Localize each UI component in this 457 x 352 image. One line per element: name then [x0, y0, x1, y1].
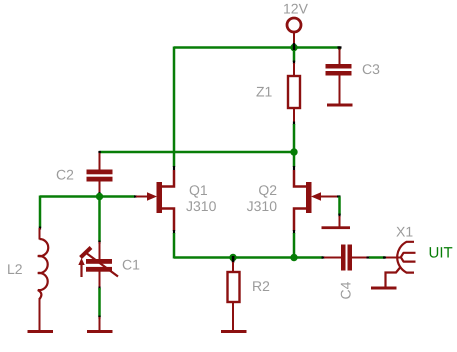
wire top rail VCC: [174, 46, 340, 49]
pin 12V terminal: [293, 33, 295, 44]
pin ground Q2 gate: [339, 216, 341, 228]
svg-text:L2: L2: [7, 261, 23, 277]
transistor Q2 channel bar: [306, 182, 312, 213]
wire overlap black L2 top: [39, 227, 41, 230]
node junction 12V rail: [290, 44, 297, 51]
capacitor C2 plate bottom: [87, 177, 113, 182]
wire overlap black C1 top: [98, 241, 100, 244]
wire overlap black Q2 source: [293, 230, 295, 234]
node junction R2: [229, 254, 236, 261]
ground C1: [87, 330, 113, 333]
svg-text:R2: R2: [252, 278, 270, 294]
wire mid rail y152: [100, 151, 295, 154]
pin C1 bottom: [99, 272, 101, 289]
pin C3 bottom: [339, 76, 341, 105]
wire C1 to ground: [98, 288, 101, 317]
pin L2 top: [39, 228, 41, 240]
pin Z1 top: [293, 63, 295, 76]
wire overlap black Q1 source: [173, 230, 175, 234]
svg-text:J310: J310: [247, 198, 278, 214]
wire Z1 bottom net: [293, 124, 296, 152]
trimmer small arrow C1: [80, 263, 82, 277]
transistor Q2 gate pin: [318, 196, 337, 198]
wire Q2 gate to ground: [338, 197, 341, 216]
pin Z1 bottom: [293, 108, 295, 123]
pin R2 bottom: [232, 302, 234, 331]
svg-text:Q2: Q2: [258, 182, 277, 198]
svg-text:C4: C4: [338, 281, 354, 299]
pin X1 center: [386, 257, 401, 259]
wire Q2 source net: [293, 233, 296, 258]
svg-text:X1: X1: [396, 224, 413, 240]
wire gate net y196.5: [40, 195, 135, 198]
transistor Q2 gate arrowhead: [311, 192, 321, 201]
wire overlap black Q2 gate gnd: [338, 214, 340, 217]
wire C2 drop corner black: [98, 151, 100, 153]
supply terminal 12V circle: [287, 18, 301, 32]
capacitor C4 plate right: [348, 245, 353, 271]
pin C4 left: [324, 257, 342, 259]
trimmer slot bar C1: [81, 248, 92, 258]
transistor Q2 source lead: [294, 209, 307, 232]
inductor L2 coil: [38, 239, 48, 299]
wire overlap black C1 bottom: [98, 287, 100, 290]
wire overlap black C3 top corner: [338, 46, 342, 48]
wire Q1 source net: [173, 233, 176, 259]
wire C1 drop: [98, 197, 101, 243]
capacitor C1 plate bottom: [86, 267, 112, 272]
pin C1 top: [99, 242, 101, 259]
wire overlap black gate net to Q1: [134, 195, 137, 197]
pin C4 right: [352, 257, 368, 259]
node junction mid rail Q2 drain: [290, 148, 297, 155]
capacitor C2 plate top: [87, 170, 113, 175]
pin C3 top: [339, 48, 341, 65]
wire Q2 drain net: [293, 152, 296, 167]
pin ground C1: [99, 317, 101, 331]
svg-text:12V: 12V: [283, 1, 309, 17]
pin C2 top: [99, 153, 101, 170]
ground R2: [221, 330, 247, 333]
ground L2: [28, 330, 54, 333]
resistor R2: [228, 272, 240, 302]
wire overlap black C4 left: [322, 256, 325, 258]
wire overlap black Q2 drain: [293, 166, 295, 170]
svg-text:UIT: UIT: [429, 245, 453, 262]
wire overlap black C1 gnd: [98, 316, 100, 319]
wire overlap black R2 top: [232, 256, 235, 263]
wire C3 drop: [338, 47, 341, 51]
capacitor C3 plate top: [326, 64, 352, 69]
wire overlap black Q2 gate corner: [337, 195, 341, 197]
wire L2 drop: [39, 196, 42, 229]
resistor Z1: [288, 76, 300, 108]
trimmer small arrow head C1: [78, 258, 84, 265]
wire overlap black Z1 top: [293, 61, 295, 65]
node junction C2 C1 gate: [96, 193, 103, 200]
node junction Q2 source C4: [290, 254, 297, 261]
connector X1 shield tap: [386, 267, 401, 287]
connector X1 center contact fork: [401, 253, 416, 262]
wire overlap black C4 right: [367, 256, 370, 258]
wire R2 top net: [232, 258, 235, 263]
svg-text:C2: C2: [56, 167, 74, 183]
wire overlap black X1 pin: [383, 256, 386, 258]
transistor Q2 drain lead: [294, 170, 307, 187]
transistor Q1 source lead: [161, 209, 174, 232]
pin R2 top: [232, 262, 234, 272]
ground X1: [371, 287, 397, 290]
svg-text:J310: J310: [186, 198, 217, 214]
wire overlap black at 12V junction: [293, 43, 295, 51]
wire bottom rail: [174, 256, 294, 259]
wire C4 to X1: [369, 256, 385, 259]
capacitor C3 plate bottom: [326, 71, 352, 76]
svg-text:C1: C1: [122, 257, 140, 273]
wire vertical left branch of top rail: [173, 47, 176, 168]
pin C2 bottom: [99, 182, 101, 194]
transistor Q1 gate pin: [136, 196, 150, 198]
svg-text:Z1: Z1: [256, 84, 273, 100]
capacitor C4 plate left: [341, 245, 346, 271]
transistor Q1 gate arrowhead: [147, 192, 157, 201]
wire Z1 top net: [293, 50, 296, 62]
wire overlap black Q1 drain: [173, 166, 175, 170]
wire overlap black C2 bottom: [98, 192, 100, 196]
pin L2 bottom: [39, 298, 41, 331]
connector X1 shield arc: [397, 242, 414, 273]
trimmer arrow diagonal C1: [86, 253, 119, 277]
transistor Q1 drain lead: [161, 170, 174, 187]
svg-text:C3: C3: [362, 61, 380, 77]
ground Q2 gate: [322, 226, 351, 229]
wire overlap black Z1 bottom: [293, 122, 295, 126]
capacitor C1 plate top: [86, 259, 112, 264]
transistor Q1 channel bar: [157, 182, 163, 213]
svg-text:Q1: Q1: [189, 182, 208, 198]
ground C3: [327, 104, 353, 107]
wire C4 left net: [294, 256, 323, 259]
